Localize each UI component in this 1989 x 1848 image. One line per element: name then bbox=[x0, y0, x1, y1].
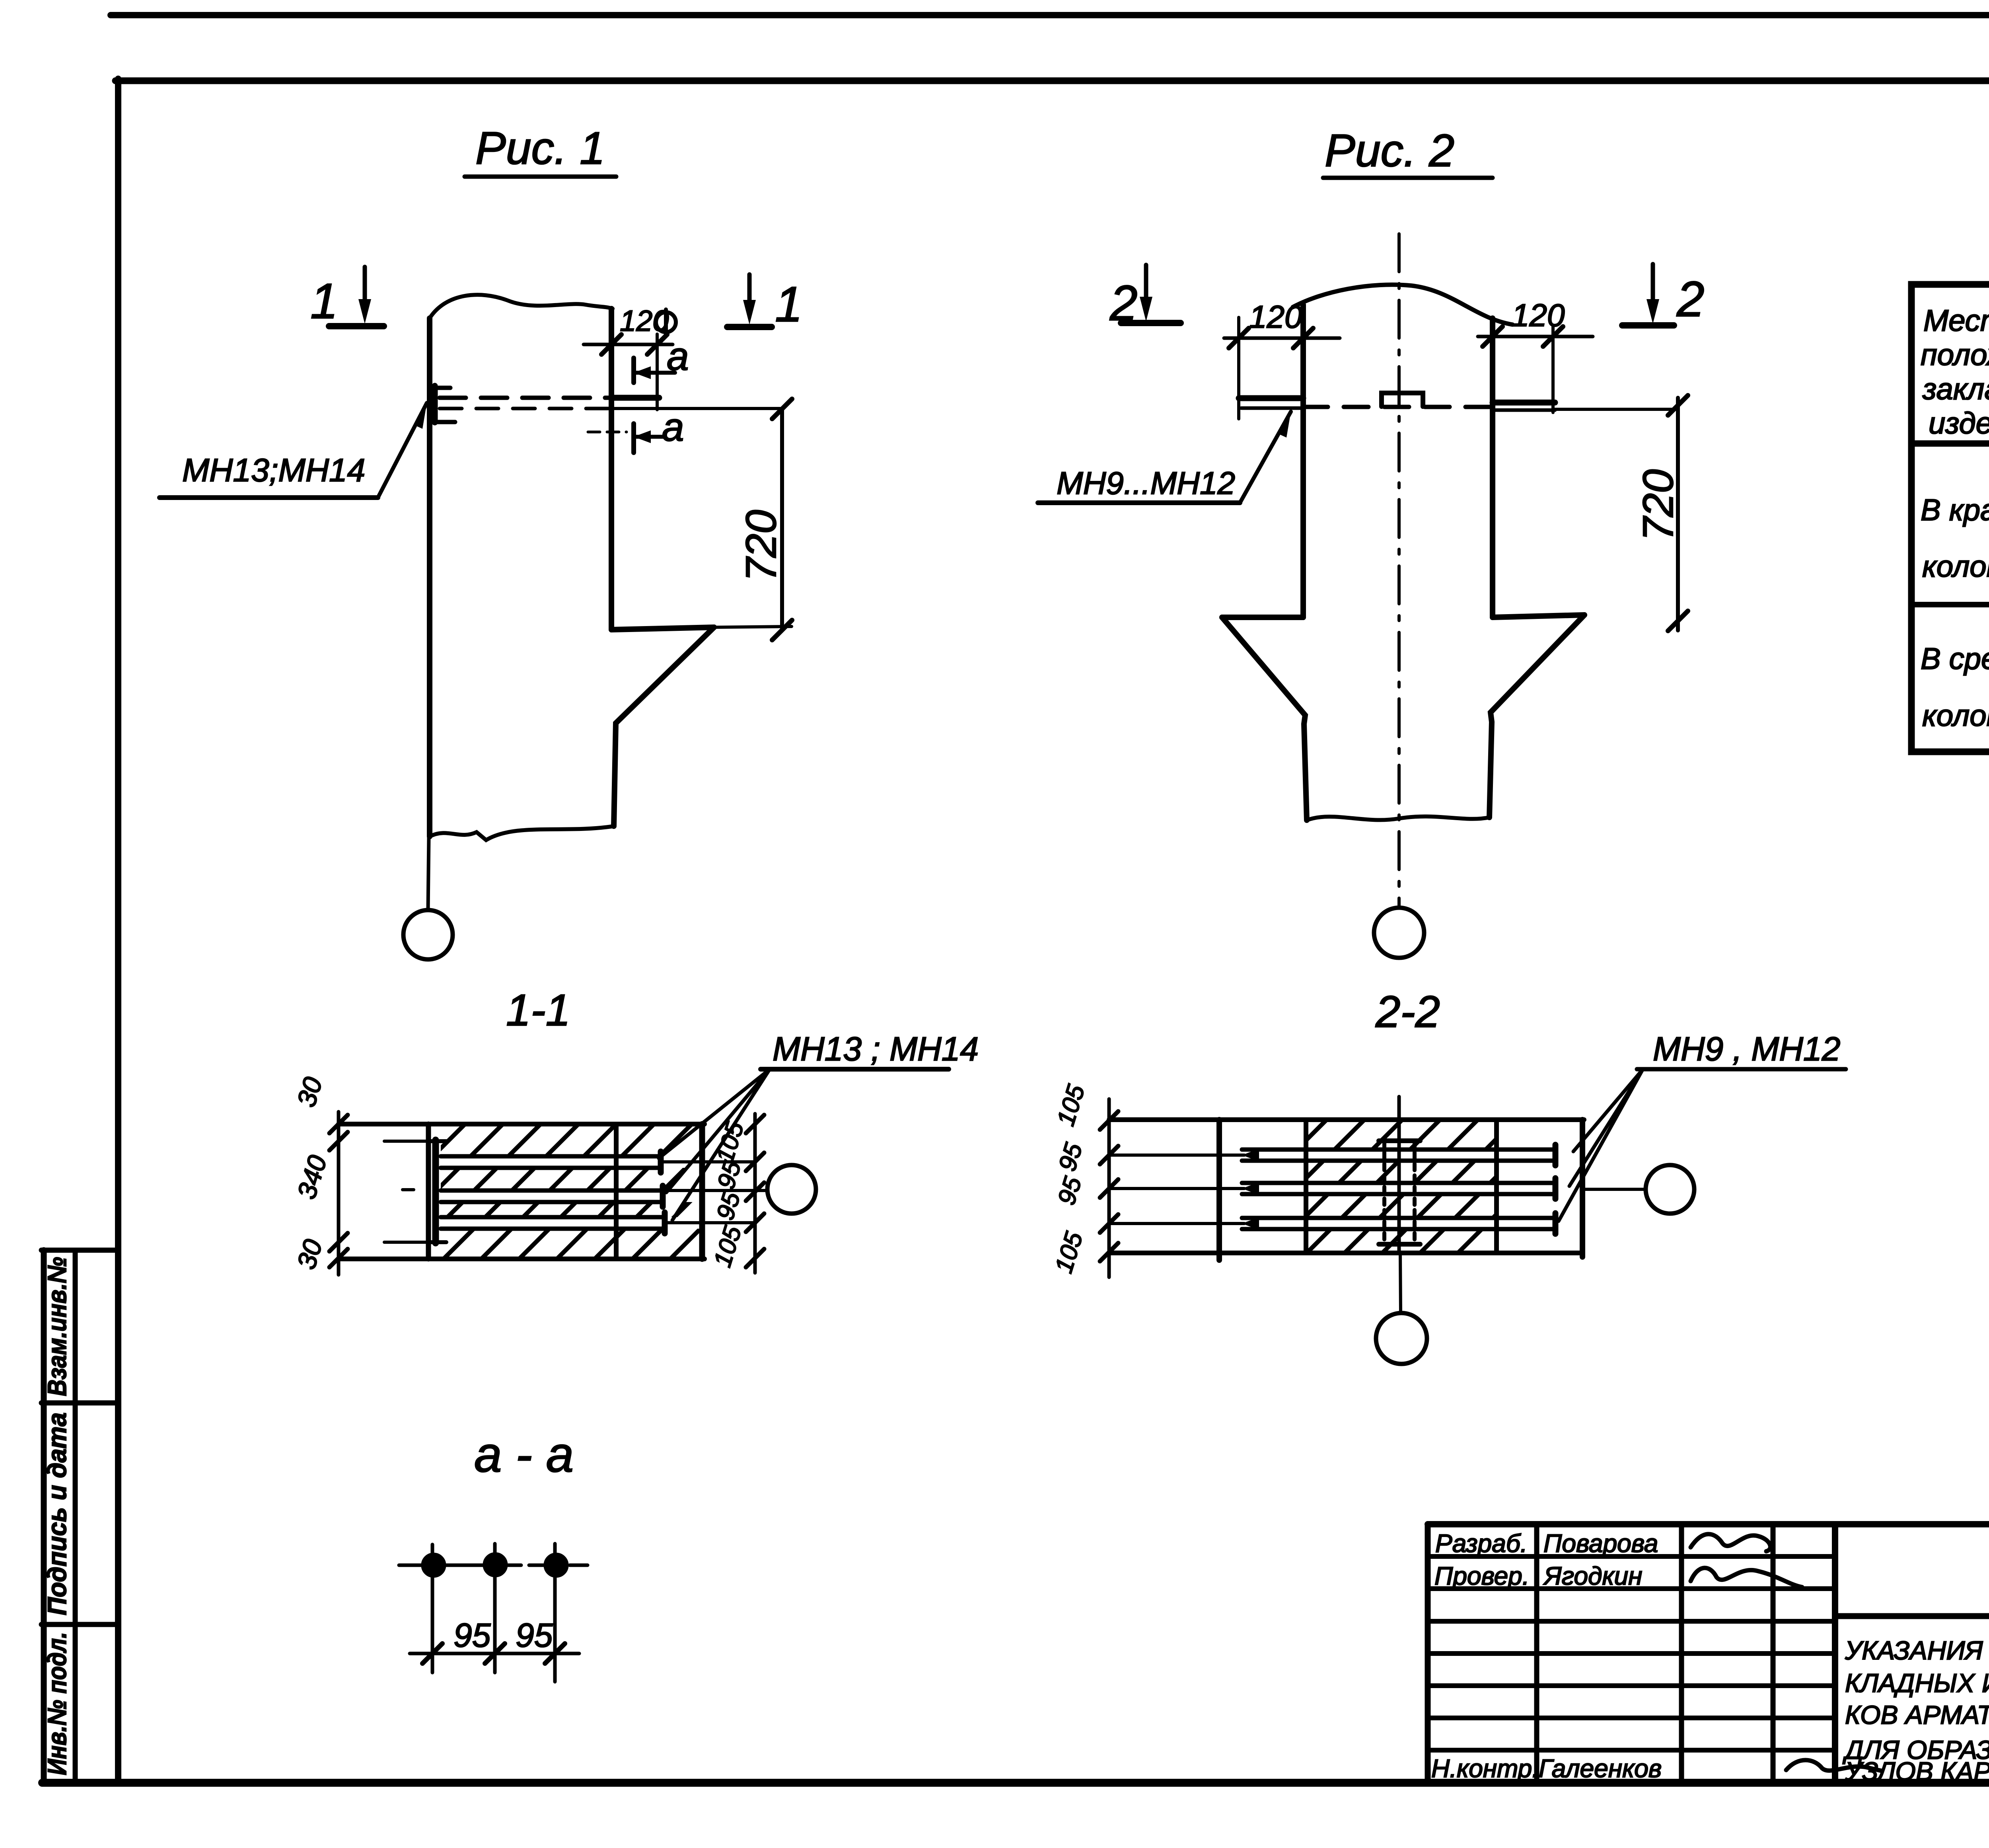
table header bottom line bbox=[1911, 440, 1989, 447]
1-1 face plate bbox=[432, 1140, 439, 1243]
svg-text:Взам.инв.№: Взам.инв.№ bbox=[42, 1257, 72, 1396]
Fig.2 dim 120 right bbox=[1551, 326, 1555, 412]
svg-text:колоннах: колоннах bbox=[1922, 550, 1989, 584]
2-2 rect left edge bbox=[1216, 1120, 1222, 1260]
Fig.1 column top break line bbox=[430, 295, 613, 318]
1-1 right dim line bbox=[753, 1114, 757, 1273]
svg-text:КОВ АРМАТУРЫ ИЗ КОЛОНН: КОВ АРМАТУРЫ ИЗ КОЛОНН bbox=[1845, 1700, 1989, 1729]
a-a vertical line 2 bbox=[493, 1544, 497, 1673]
Fig.1 bottom break line bbox=[430, 826, 614, 840]
a-a vertical line 1 bbox=[431, 1545, 434, 1673]
svg-text:30: 30 bbox=[291, 1236, 328, 1272]
svg-text:МН13 ; МН14: МН13 ; МН14 bbox=[773, 1030, 979, 1068]
1-1 centerline bbox=[403, 1188, 414, 1191]
2-2 anchor bar 2 bbox=[1242, 1181, 1555, 1185]
a-a horizontal centerline bbox=[399, 1564, 521, 1567]
2-2 axis circle bottom bbox=[1376, 1313, 1427, 1364]
Fig.2 bottom break line bbox=[1307, 817, 1489, 820]
Fig.1 embed hidden line upper bbox=[440, 396, 611, 400]
Fig.1 embed hidden line lower bbox=[440, 407, 611, 410]
1-1 rect left edge bbox=[426, 1124, 431, 1259]
svg-text:положение: положение bbox=[1921, 338, 1989, 372]
svg-text:95: 95 bbox=[1053, 1140, 1088, 1174]
table outer border bbox=[1911, 284, 1989, 752]
Fig.2 right corbel bbox=[1493, 615, 1584, 617]
svg-text:95: 95 bbox=[711, 1189, 745, 1223]
Fig.2 dim 720 line bbox=[1676, 398, 1680, 630]
title block vertical 4227 bbox=[1679, 1524, 1684, 1783]
1-1 anchor bar 2 bbox=[441, 1189, 663, 1193]
Fig.1 corbel extension line bbox=[714, 626, 792, 627]
svg-text:105: 105 bbox=[711, 1119, 749, 1166]
Fig.1 dim 720 line bbox=[780, 409, 784, 630]
a-a bolt circle 1 bbox=[423, 1555, 444, 1576]
margin cell divider 2 bbox=[41, 1622, 118, 1627]
Fig.2 left embed plate bbox=[1239, 395, 1303, 401]
svg-text:30: 30 bbox=[291, 1074, 328, 1110]
title block vertical 3863 bbox=[1534, 1524, 1539, 1783]
Fig.1 title underline bbox=[465, 175, 616, 179]
signature 2 bbox=[1691, 1568, 1802, 1587]
Fig.1 axis line to circle bbox=[428, 836, 429, 910]
svg-text:Разраб.: Разраб. bbox=[1435, 1529, 1528, 1558]
1-1 axis circle bbox=[767, 1165, 816, 1214]
2-2 inner vertical right bbox=[1494, 1120, 1499, 1253]
svg-text:120: 120 bbox=[1249, 299, 1302, 335]
svg-text:Галеенков: Галеенков bbox=[1539, 1754, 1662, 1783]
svg-text:В средних: В средних bbox=[1921, 642, 1989, 676]
Fig.1 column right edge bbox=[609, 309, 614, 630]
svg-text:2-2: 2-2 bbox=[1375, 987, 1440, 1037]
Fig.2 right embed plate bbox=[1493, 400, 1555, 406]
svg-text:Ягодкин: Ягодкин bbox=[1543, 1562, 1642, 1590]
Fig.1 embed plate MH13 MH14 bbox=[432, 386, 438, 422]
Fig.2 dim 120 left bbox=[1237, 317, 1240, 419]
title block left edge bbox=[1425, 1524, 1431, 1783]
svg-text:колоннах: колоннах bbox=[1922, 699, 1989, 733]
a-a vertical line 3 bbox=[553, 1544, 557, 1682]
2-2 axis circle right bbox=[1646, 1165, 1694, 1214]
Fig.1 column left edge bbox=[427, 318, 432, 836]
frame bottom line bbox=[42, 1779, 1989, 1787]
svg-text:КЛАДНЫХ ИЗДЕЛИЙ ВЫПУС-: КЛАДНЫХ ИЗДЕЛИЙ ВЫПУС- bbox=[1845, 1668, 1989, 1698]
2-2 anchor bar 1 bbox=[1242, 1148, 1555, 1152]
svg-text:a - a: a - a bbox=[474, 1427, 574, 1482]
svg-text:720: 720 bbox=[737, 510, 785, 582]
2-2 center bolt strip bbox=[1382, 1141, 1386, 1244]
svg-text:95: 95 bbox=[1053, 1173, 1087, 1208]
a-a bolt circle 3 bbox=[546, 1555, 566, 1576]
svg-text:95: 95 bbox=[516, 1617, 553, 1654]
Fig.2 axis circle bbox=[1374, 908, 1424, 958]
frame top line bbox=[115, 78, 1989, 84]
2-2 rect bottom bbox=[1109, 1251, 1582, 1255]
Fig.2 column top break line bbox=[1293, 285, 1512, 325]
Fig.1 embed visible end upper bbox=[611, 395, 659, 401]
a-a dim line bbox=[410, 1652, 579, 1655]
1-1 anchor bar 1 bbox=[441, 1154, 661, 1159]
Fig.1 section mark 1 left arrow bbox=[363, 267, 367, 314]
svg-text:УКАЗАНИЯ ПО ПРИВЯЗКЕ ЗА-: УКАЗАНИЯ ПО ПРИВЯЗКЕ ЗА- bbox=[1845, 1636, 1989, 1665]
svg-text:закладных: закладных bbox=[1922, 372, 1989, 406]
margin column top cap bbox=[41, 1248, 118, 1253]
2-2 connector lines to left dim bbox=[1109, 1154, 1244, 1157]
Fig.1 corbel slope and lower edge bbox=[614, 627, 714, 826]
svg-text:105: 105 bbox=[708, 1223, 747, 1270]
Fig.1 section mark 1 right arrow bbox=[747, 274, 752, 315]
1-1 rect top bbox=[339, 1122, 705, 1126]
Fig.1 axis circle bbox=[403, 910, 453, 959]
Fig.2 column right edge bbox=[1490, 318, 1495, 617]
margin cell divider 1 bbox=[41, 1401, 118, 1406]
title block vertical 4613 bbox=[1832, 1524, 1838, 1783]
svg-text:УЗЛОВ КАРКАСА.: УЗЛОВ КАРКАСА. bbox=[1845, 1757, 1989, 1786]
svg-text:340: 340 bbox=[292, 1152, 333, 1202]
Fig.1 corbel ledge bbox=[611, 627, 714, 630]
title block top line bbox=[1428, 1521, 1989, 1527]
svg-text:105: 105 bbox=[1050, 1229, 1088, 1276]
2-2 centerline horizontal bbox=[1154, 1187, 1217, 1190]
margin column outer line bbox=[41, 1250, 47, 1783]
svg-text:Место-: Место- bbox=[1923, 304, 1989, 338]
frame left line bbox=[115, 79, 121, 1783]
2-2 left dim line bbox=[1107, 1099, 1111, 1277]
svg-text:Провер.: Провер. bbox=[1434, 1562, 1530, 1590]
svg-text:95: 95 bbox=[453, 1617, 491, 1654]
svg-text:МН13;МН14: МН13;МН14 bbox=[182, 452, 365, 488]
Fig.2 column left edge bbox=[1300, 305, 1306, 617]
Fig.1 dim 120 line bbox=[584, 343, 673, 346]
1-1 hatching bbox=[330, 1124, 805, 1259]
svg-text:105: 105 bbox=[1052, 1082, 1090, 1129]
title block doc cell bottom bbox=[1835, 1613, 1989, 1619]
svg-text:720: 720 bbox=[1634, 469, 1682, 541]
svg-text:Инв.№ подл.: Инв.№ подл. bbox=[42, 1632, 72, 1775]
margin column inner line bbox=[73, 1250, 78, 1783]
2-2 rect top bbox=[1109, 1117, 1584, 1122]
table row divider bbox=[1911, 602, 1989, 607]
2-2 anchor bar 3 bbox=[1242, 1216, 1555, 1220]
1-1 inner vertical bbox=[614, 1124, 619, 1259]
Fig.2 section mark 2 right arrow bbox=[1651, 264, 1655, 314]
svg-text:В крайних: В крайних bbox=[1921, 493, 1989, 527]
svg-text:Рис. 2: Рис. 2 bbox=[1325, 125, 1454, 176]
svg-text:Поварова: Поварова bbox=[1543, 1529, 1658, 1558]
sheet top edge line bbox=[111, 12, 1989, 18]
1-1 rect right edge bbox=[699, 1124, 705, 1259]
svg-text:Н.контр.: Н.контр. bbox=[1431, 1754, 1539, 1783]
Fig.2 title underline bbox=[1323, 176, 1493, 180]
Fig.2 center staple bbox=[1382, 393, 1423, 407]
svg-text:1: 1 bbox=[310, 274, 338, 329]
signature 3 bbox=[1786, 1760, 1882, 1771]
Fig.2 extension to 720 dim bbox=[1555, 408, 1678, 411]
signature 1 bbox=[1691, 1534, 1770, 1551]
1-1 anchor bar 3 bbox=[441, 1215, 665, 1220]
1-1 rect bottom bbox=[339, 1257, 705, 1261]
Fig.2 column centerline bbox=[1397, 234, 1401, 907]
title block vertical 4457 bbox=[1771, 1524, 1776, 1783]
Fig.2 embed hidden line bbox=[1303, 405, 1493, 409]
svg-text:1-1: 1-1 bbox=[506, 985, 570, 1035]
svg-text:изделий: изделий bbox=[1929, 407, 1989, 440]
Fig.1 extension line to 720 dim bbox=[611, 407, 782, 410]
1-1 connector lines to right dim bbox=[661, 1160, 755, 1163]
Fig.2 left corbel bbox=[1222, 615, 1303, 620]
svg-text:1: 1 bbox=[775, 277, 803, 332]
svg-text:120: 120 bbox=[1512, 298, 1565, 333]
svg-text:Рис. 1: Рис. 1 bbox=[475, 123, 605, 174]
2-2 rect right edge bbox=[1580, 1120, 1585, 1257]
2-2 inner vertical left bbox=[1304, 1120, 1308, 1253]
svg-text:МН9 , МН12: МН9 , МН12 bbox=[1653, 1030, 1840, 1068]
1-1 left extension lines bbox=[384, 1140, 428, 1143]
1-1 left dim line bbox=[337, 1112, 341, 1275]
Fig.1 dim 120 extension bbox=[656, 334, 659, 410]
2-2 hatching bbox=[1193, 1120, 1629, 1253]
title block small table rows bbox=[1428, 1554, 1835, 1559]
svg-text:Подпись и дата: Подпись и дата bbox=[42, 1412, 72, 1615]
2-2 centerline vertical bbox=[1397, 1097, 1401, 1253]
svg-text:2: 2 bbox=[1676, 272, 1705, 327]
svg-text:МН9...МН12: МН9...МН12 bbox=[1057, 465, 1235, 501]
svg-text:a: a bbox=[662, 405, 684, 449]
Fig.2 section mark 2 left arrow bbox=[1144, 265, 1148, 312]
a-a bolt circle 2 bbox=[485, 1554, 506, 1575]
